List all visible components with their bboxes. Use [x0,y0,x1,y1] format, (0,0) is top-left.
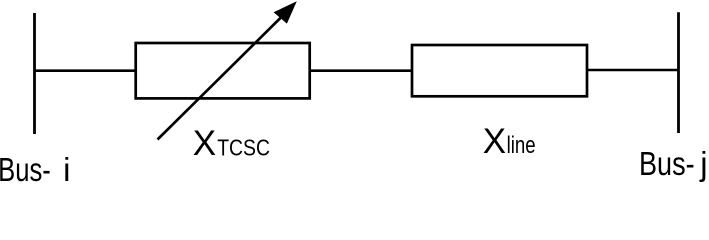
bus bar Bus-j [677,12,680,133]
svg-text:Bus-: Bus- [639,145,695,182]
svg-text:Bus-: Bus- [0,151,51,182]
svg-text:line: line [507,132,536,159]
svg-text:TCSC: TCSC [217,134,270,160]
wire from line box to Bus-j [587,69,679,72]
wire from Bus-i to TCSC box [35,69,138,72]
reactance box X_TCSC [136,43,310,98]
bus bar Bus-i [33,13,36,134]
wire between boxes [310,69,412,72]
svg-text:i: i [63,151,70,182]
variable-reactance arrow shaft [158,11,289,140]
svg-text:X: X [193,124,216,163]
reactance box X_line [412,45,587,96]
variable-reactance arrowhead [274,1,297,23]
svg-text:j: j [699,145,707,182]
svg-text:X: X [483,122,506,161]
